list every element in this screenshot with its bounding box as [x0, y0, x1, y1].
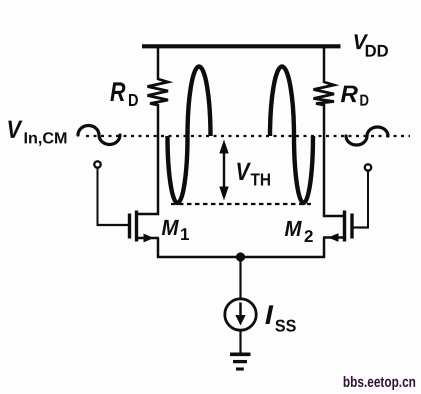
- svg-text:2: 2: [304, 227, 313, 246]
- svg-text:1: 1: [180, 225, 189, 244]
- svg-text:M: M: [284, 216, 302, 241]
- svg-text:R: R: [110, 77, 126, 107]
- svg-text:TH: TH: [251, 170, 272, 190]
- svg-text:R: R: [341, 81, 359, 108]
- svg-text:D: D: [360, 93, 370, 110]
- svg-text:SS: SS: [275, 317, 297, 336]
- svg-text:In,CM: In,CM: [24, 130, 68, 147]
- svg-text:V: V: [236, 158, 252, 186]
- svg-text:I: I: [265, 300, 274, 330]
- svg-text:DD: DD: [365, 42, 389, 61]
- svg-text:bbs.eetop.cn: bbs.eetop.cn: [343, 374, 416, 391]
- svg-text:M: M: [161, 215, 179, 240]
- svg-text:V: V: [7, 116, 24, 144]
- svg-text:D: D: [128, 90, 139, 110]
